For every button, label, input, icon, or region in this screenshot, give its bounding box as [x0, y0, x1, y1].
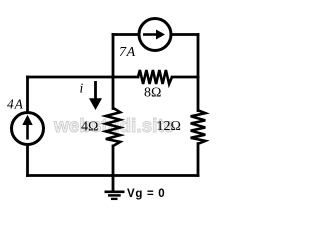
wire right vertical lower lead of 12-ohm resistor — [197, 144, 200, 176]
wire right vertical upper lead of 12-ohm resistor — [197, 35, 200, 111]
wire left horizontal (top-left node to middle node) — [28, 76, 114, 79]
wire 8-ohm row right lead — [172, 76, 198, 79]
svg-text:4Ω: 4Ω — [81, 120, 98, 135]
current arrow i (branch current, pointing down) — [89, 81, 102, 110]
resistor 4 ohm (vertical zigzag) — [106, 108, 120, 146]
svg-text:4: 4 — [7, 97, 14, 112]
current source 7A (circle with right arrow) — [139, 19, 171, 51]
svg-text:A: A — [126, 45, 136, 60]
resistor 12 ohm (vertical zigzag) — [191, 110, 206, 143]
current source 4A (circle with up arrow) — [12, 113, 44, 145]
wire top horizontal right lead of 7A source — [171, 33, 198, 36]
wire bottom horizontal — [28, 174, 199, 177]
wire left vertical lower lead of 4A source — [26, 146, 29, 176]
svg-text:Vg = 0: Vg = 0 — [127, 188, 165, 200]
svg-text:A: A — [14, 97, 24, 112]
resistor 8 ohm (horizontal zigzag) — [138, 70, 172, 84]
wire middle vertical top (middle node up to top wire) — [112, 35, 115, 78]
ground — [105, 176, 125, 199]
svg-text:8Ω: 8Ω — [144, 86, 161, 101]
wire middle vertical lower lead of 4-ohm resistor — [112, 146, 115, 176]
wire left vertical upper lead of 4A source — [26, 77, 29, 112]
svg-text:i: i — [80, 81, 84, 96]
wire middle vertical upper lead of 4-ohm resistor — [112, 77, 115, 109]
wire top horizontal left lead of 7A source — [113, 33, 139, 36]
svg-text:12Ω: 12Ω — [157, 119, 181, 134]
wire 8-ohm row left lead — [113, 76, 138, 79]
